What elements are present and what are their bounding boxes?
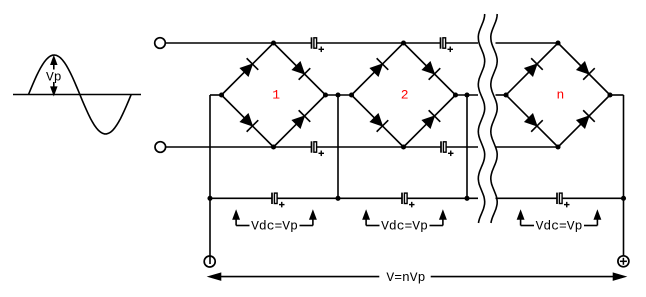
wire lower bus: C3 to C4 — [317, 146, 441, 148]
wire bottom bus: left to C5 — [209, 197, 272, 199]
break wavy line right — [491, 14, 497, 223]
bridge n diamond edges — [506, 43, 610, 147]
node bottom bus mid 2-n — [464, 196, 469, 201]
bridge 2 diode top-right — [421, 60, 441, 80]
sine axis line — [13, 94, 141, 96]
wire left drop vertical — [209, 95, 211, 264]
node bottom bus right — [621, 196, 626, 201]
node bottom bus mid 1-2 — [335, 196, 340, 201]
label Vdc=Vp stage 2 — [363, 212, 445, 234]
DC terminal negative (left) — [204, 256, 215, 267]
wire break to bridge n left — [496, 94, 507, 96]
capacitor C6 — [402, 193, 415, 208]
node bridge n bottom — [555, 144, 560, 149]
node bridge 2 bottom — [401, 144, 406, 149]
node bridge n right — [607, 92, 612, 97]
Vp amplitude arrow — [51, 57, 56, 94]
V=nVp dimension arrow — [210, 273, 625, 279]
svg-text:Vp: Vp — [46, 69, 62, 84]
node bridge 1 bottom — [271, 144, 276, 149]
svg-text:V=nVp: V=nVp — [386, 270, 425, 285]
AC terminal bottom — [155, 142, 166, 153]
wire bottom bus: break to C7 — [496, 197, 557, 199]
wire bottom bus: C7 to right — [563, 197, 624, 199]
capacitor C5 — [272, 193, 285, 208]
capacitor C7 — [557, 193, 570, 208]
bridge 1 diode top-right — [291, 60, 311, 80]
label Vp — [45, 69, 63, 84]
wire top bus: C2 to break — [446, 42, 478, 44]
sine wave — [29, 55, 132, 134]
bridge n diode left-top — [523, 58, 543, 78]
wire top bus: break to bridge n — [496, 42, 559, 44]
wire lower bus: terminal to C3 — [166, 146, 312, 148]
wire right drop vertical — [623, 95, 625, 256]
svg-text:Vdc=Vp: Vdc=Vp — [381, 218, 428, 233]
wire bottom bus: C5 to C6 — [278, 197, 402, 199]
node bridge 2 right — [453, 92, 458, 97]
wire top bus: C1 to C2 — [317, 42, 440, 44]
wire top bus: terminal to C1 — [165, 42, 311, 44]
capacitor C2 — [441, 37, 454, 52]
node bridge 1 left — [219, 92, 224, 97]
node bridge n left — [503, 92, 508, 97]
bridge 2 diode left-bottom — [369, 112, 389, 132]
bridge 2 diode bottom-right — [421, 110, 441, 130]
bridge 1 diode left-bottom — [239, 112, 259, 132]
label Vdc=Vp stage n — [518, 212, 600, 234]
wire bridge2 right to break — [456, 94, 479, 96]
wire bridge1 right to bridge2 left — [326, 94, 352, 96]
wire mid drop 1-2 vertical — [337, 95, 339, 198]
capacitor C1 — [312, 37, 325, 52]
wire bottom bus: C6 to break — [408, 197, 479, 199]
bridge 2 diamond edges — [352, 43, 456, 147]
node bottom bus left — [207, 196, 212, 201]
node junction mid 1-2 — [335, 92, 340, 97]
node bridge n top — [555, 40, 560, 45]
label Vdc=Vp stage 1 — [233, 212, 315, 234]
wire lower bus: C4 to break — [447, 146, 479, 148]
bridge n diode left-bottom — [523, 112, 543, 132]
node bridge 2 top — [401, 40, 406, 45]
node bridge 2 left — [349, 92, 354, 97]
bridge 1 diamond edges — [222, 43, 326, 147]
DC terminal positive (right) — [618, 256, 629, 267]
capacitor C4 — [441, 141, 454, 156]
svg-text:2: 2 — [401, 88, 409, 103]
wire mid drop 2-n vertical — [466, 95, 468, 198]
wire bridge n right to right drop (L-shape) — [610, 94, 624, 96]
svg-text:n: n — [556, 88, 564, 103]
wire bridge1 left node to left drop (L-shape) — [210, 94, 222, 96]
bridge 1 diode left-top — [239, 58, 259, 78]
break wavy line left — [478, 14, 484, 223]
bridge n diode top-right — [575, 60, 595, 80]
wire lower bus: break to bridge n — [496, 146, 559, 148]
bridge n diode bottom-right — [575, 110, 595, 130]
capacitor C3 — [312, 141, 325, 156]
svg-text:Vdc=Vp: Vdc=Vp — [251, 218, 298, 233]
bridge 2 diode left-top — [369, 58, 389, 78]
svg-text:1: 1 — [272, 88, 280, 103]
node bridge 1 right — [323, 92, 328, 97]
AC terminal top — [155, 38, 166, 49]
node junction mid 2-n — [464, 92, 469, 97]
bridge 1 diode bottom-right — [291, 110, 311, 130]
node bridge 1 top — [271, 40, 276, 45]
svg-text:Vdc=Vp: Vdc=Vp — [536, 218, 583, 233]
